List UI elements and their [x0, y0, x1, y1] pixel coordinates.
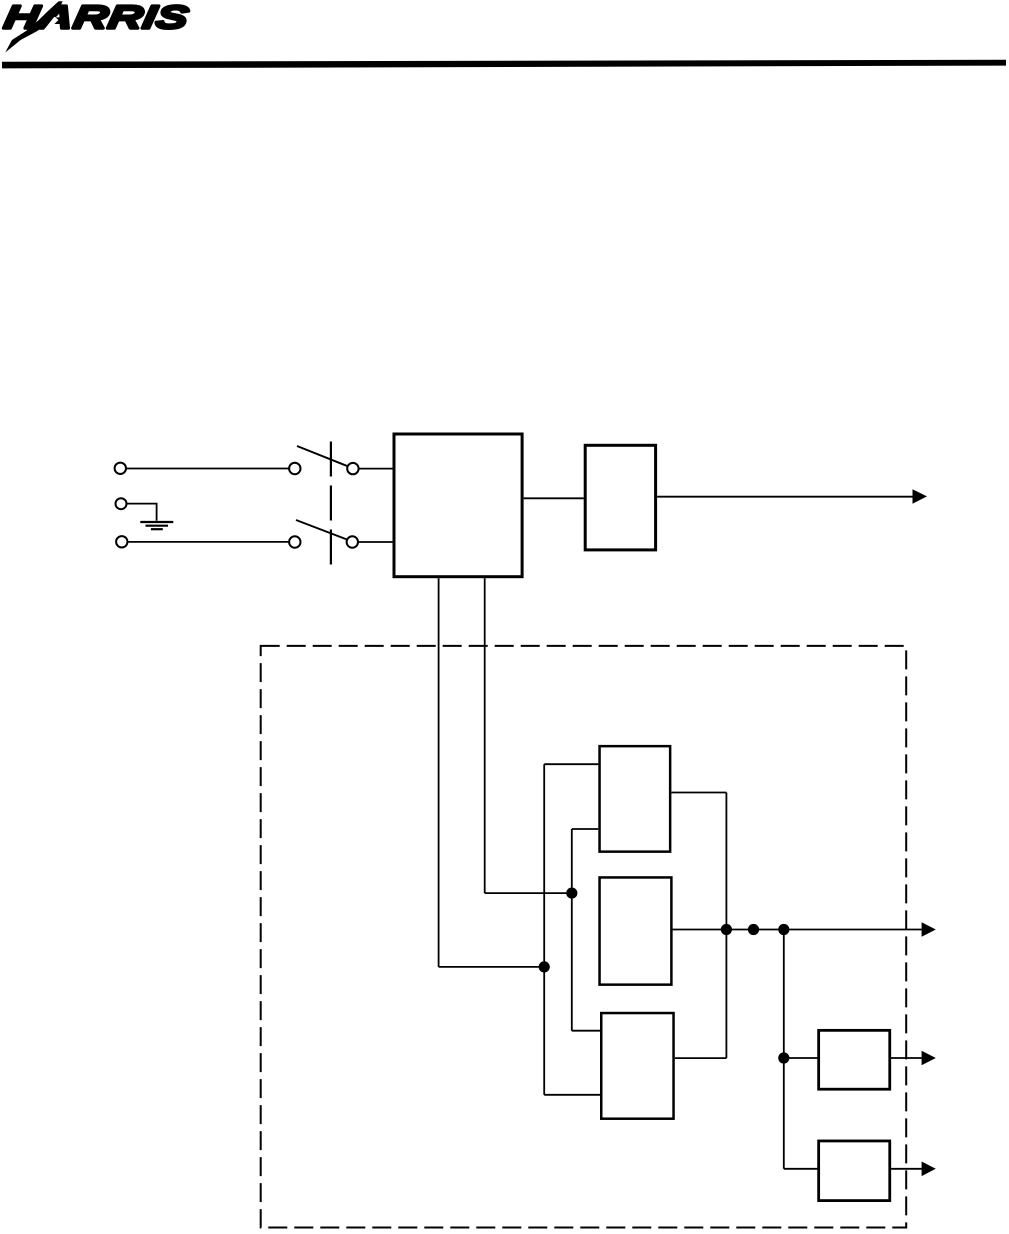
switch S2 pole A contact	[289, 536, 300, 547]
wire L2 to block A lower input	[572, 828, 599, 830]
junction dot branch on B bus	[778, 924, 789, 935]
arrow output 4	[922, 1162, 936, 1177]
wire to block D input	[784, 1057, 819, 1059]
wire J2 to ground	[127, 504, 157, 521]
branch wire to blocks D and E (vertical)	[783, 930, 785, 1169]
Harris logo wordmark	[3, 6, 188, 29]
wire to block E input	[784, 1168, 819, 1170]
wire S2 to block U1	[358, 541, 393, 543]
wire U1 to U2	[524, 497, 584, 499]
arrow output 1	[913, 489, 928, 504]
wire block C output	[675, 1057, 727, 1059]
arrow output 2	[922, 922, 936, 937]
arrow output 3	[922, 1051, 936, 1066]
switch S2 blade	[296, 520, 347, 540]
wire block A output	[671, 792, 726, 794]
block C	[601, 1013, 673, 1119]
wire S1 to block U1	[359, 468, 393, 470]
junction dot block D tap	[778, 1052, 789, 1063]
switch S1 blade	[297, 446, 348, 466]
wire block E output	[891, 1168, 922, 1170]
wire A/C output tie (vertical)	[725, 793, 727, 1059]
wire J1 to switch S1	[126, 468, 289, 470]
dashed enclosure	[261, 646, 907, 1228]
block D	[819, 1030, 890, 1089]
wire U2 output	[657, 496, 913, 498]
switch S1 pole B contact	[347, 463, 358, 474]
junction dot on bus L1	[539, 961, 550, 972]
junction dot mid on B bus	[748, 924, 759, 935]
terminal J2 (middle, grounded)	[116, 498, 127, 509]
ground	[140, 522, 173, 529]
bus L1 (vertical)	[543, 764, 545, 1095]
terminal J1 (top input)	[115, 463, 126, 474]
junction dot A/C tie on B bus	[721, 924, 732, 935]
terminal J3 (bottom input)	[116, 536, 127, 547]
bus L2 (vertical)	[571, 829, 573, 1031]
Harris logo A-leg trim	[44, 17, 59, 30]
wire U1 lower-right feed (horizontal)	[485, 892, 572, 894]
switch S1 pole A contact	[289, 463, 300, 474]
wire J3 to switch S2	[128, 541, 290, 543]
wire L2 to block C upper input	[572, 1030, 601, 1032]
wire L1 to block A top input	[544, 763, 598, 765]
wire block D output	[891, 1057, 922, 1059]
block U1 (main unit)	[394, 434, 522, 577]
block A	[600, 746, 671, 852]
wire U1 lower-right feed (vertical)	[484, 578, 486, 893]
block B	[600, 877, 672, 984]
header rule bar	[2, 60, 1006, 69]
junction dot on bus L2	[566, 888, 577, 899]
wire U1 lower-left feed (vertical)	[438, 578, 440, 967]
wire U1 lower-left feed (horizontal)	[439, 966, 545, 968]
wire L1 to block C bottom input	[544, 1094, 601, 1096]
switch gang linkage (dashed)	[330, 442, 332, 565]
block U2	[585, 445, 655, 550]
Harris logo lightning-bolt slash of letter A	[5, 1, 62, 52]
wire block B output bus	[672, 929, 921, 931]
block E	[819, 1141, 890, 1201]
switch S2 pole B contact	[347, 536, 358, 547]
